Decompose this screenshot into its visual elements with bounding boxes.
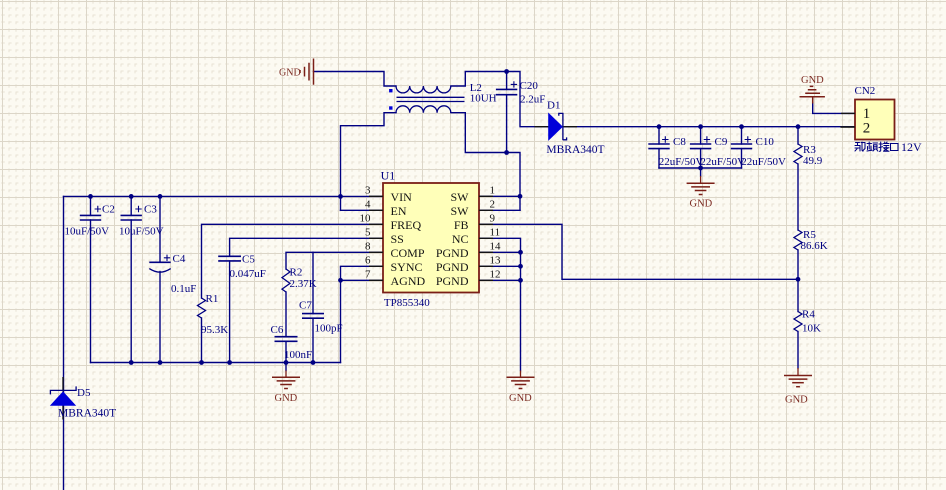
svg-text:C2: C2 (102, 204, 115, 216)
wire C6 ground stub (285, 363, 287, 371)
svg-text:10K: 10K (802, 323, 821, 335)
CN2 pin 1 (841, 106, 870, 122)
resistor R4 10K (794, 309, 821, 335)
connector CN2 body (855, 85, 895, 140)
svg-text:FREQ: FREQ (391, 218, 422, 232)
svg-text:SYNC: SYNC (391, 260, 423, 274)
wire CN2 pin2 stub (841, 126, 855, 128)
junction VIN rail / L2-EN (338, 194, 343, 199)
svg-text:MBRA340T: MBRA340T (58, 408, 116, 420)
capacitor C8 22uF/50V (648, 136, 703, 168)
svg-text:86.6K: 86.6K (801, 240, 828, 252)
junction PGND pin12 (518, 278, 523, 283)
CN2 pin 2 (841, 120, 870, 136)
wire bottom ground rail (91, 362, 341, 364)
power ground GND above CN2 (flipped) (800, 75, 825, 104)
resistor R2 2.37K (282, 267, 317, 293)
svg-text:U1: U1 (381, 169, 396, 183)
svg-text:SS: SS (391, 232, 404, 246)
svg-text:PGND: PGND (436, 274, 469, 288)
junction PGND pin14 (518, 250, 523, 255)
svg-text:GND: GND (509, 393, 532, 404)
U1 pin 1 SW (451, 185, 496, 204)
junction VIN rail / C4 (158, 194, 163, 199)
resistor R5 86.6K (794, 229, 828, 252)
wire PGND pin14 link (479, 251, 521, 253)
resistor R1 95.3K (198, 293, 229, 336)
capacitor C7 100pF (299, 300, 343, 335)
svg-text:SW: SW (451, 204, 470, 218)
svg-text:3: 3 (365, 185, 371, 197)
wire R3 top lead (797, 127, 799, 144)
junction VIN rail / C3 (129, 194, 134, 199)
wire L2 secondary left down to VIN net (341, 113, 397, 211)
svg-text:7: 7 (365, 269, 371, 281)
wire caps rail ground stub (700, 168, 702, 176)
svg-text:12V: 12V (901, 140, 922, 154)
svg-text:C4: C4 (173, 253, 186, 265)
svg-text:100nF: 100nF (284, 349, 312, 361)
svg-text:C20: C20 (520, 80, 539, 92)
junction output rail / R3 (796, 124, 801, 129)
svg-text:2.37K: 2.37K (290, 278, 317, 290)
U1 pin 6 SYNC (365, 255, 423, 274)
U1 pin 12 PGND (436, 269, 501, 288)
power ground GND below C6 rail (272, 371, 300, 404)
svg-text:C8: C8 (673, 136, 686, 148)
wire AGND column to ground rail (340, 280, 342, 362)
wire SW pin2 stub link (479, 209, 520, 211)
wire FB pin9 to feedback divider (479, 224, 798, 279)
wire C9 top lead (700, 127, 702, 144)
wire C3 bottom lead (130, 220, 132, 363)
junction ground rail / C7 (311, 360, 316, 365)
wire C3 top lead (130, 196, 132, 215)
junction output rail / C8 (657, 124, 662, 129)
junction SYNC-AGND (338, 278, 343, 283)
junction PGND pin13 (518, 264, 523, 269)
svg-text:1: 1 (490, 185, 496, 197)
U1 pin 8 COMP (365, 241, 425, 260)
wire output caps ground rail (659, 167, 742, 169)
junction caps ground rail / C9 (698, 166, 703, 171)
junction ground rail / C3 (129, 360, 134, 365)
svg-text:GND: GND (785, 395, 808, 406)
wire PGND pin13 link (479, 265, 521, 267)
svg-text:GND: GND (690, 199, 713, 210)
svg-text:R2: R2 (290, 267, 303, 279)
wire C8 bottom lead (658, 149, 660, 168)
capacitor C2 10uF/50V (65, 204, 115, 238)
wire output rail D1 to CN2 (563, 126, 855, 128)
junction output rail / C10 (739, 124, 744, 129)
svg-text:PGND: PGND (436, 246, 469, 260)
svg-text:2: 2 (490, 199, 496, 211)
wire R3 to R5 link (797, 164, 799, 230)
svg-text:22uF/50V: 22uF/50V (659, 156, 704, 168)
wire SS to C5 (230, 238, 383, 256)
svg-text:VIN: VIN (391, 190, 413, 204)
wire C4 bottom lead (159, 272, 161, 363)
wire PGND pin12 link (479, 279, 521, 281)
capacitor C3 10uF/50V (119, 204, 164, 238)
svg-text:9: 9 (490, 213, 496, 225)
svg-text:D5: D5 (77, 387, 91, 399)
capacitor C4 0.1uF (polarized) (149, 253, 196, 295)
svg-text:C5: C5 (242, 253, 255, 265)
wire C9 bottom lead (700, 149, 702, 168)
svg-text:0.047uF: 0.047uF (230, 268, 266, 280)
svg-text:PGND: PGND (436, 260, 469, 274)
junction ground rail / C4 (158, 360, 163, 365)
svg-text:10uF/50V: 10uF/50V (65, 226, 110, 238)
svg-text:AGND: AGND (391, 274, 426, 288)
svg-text:C3: C3 (144, 204, 157, 216)
U1 pin 2 SW (451, 199, 496, 218)
junction output rail / C9 (698, 124, 703, 129)
capacitor C10 22uF/50V (731, 136, 786, 168)
svg-text:COMP: COMP (391, 246, 425, 260)
wire R4 bottom lead (797, 332, 799, 369)
svg-text:4: 4 (365, 199, 371, 211)
wire R5 to FB node (797, 250, 799, 279)
wire C10 bottom lead (741, 149, 743, 168)
svg-text:14: 14 (490, 241, 502, 253)
junction ground rail / R1 (199, 360, 204, 365)
svg-text:MBRA340T: MBRA340T (546, 144, 604, 156)
wire R2 to C6 series link (285, 292, 287, 337)
wire C20 bottom lead (506, 95, 508, 153)
svg-text:11: 11 (490, 227, 501, 239)
wire SYNC pin6 to AGND column (341, 266, 384, 280)
wire C10 top lead (741, 127, 743, 144)
svg-text:12: 12 (490, 269, 501, 281)
U1 pin 5 SS (365, 227, 404, 246)
svg-text:0.1uF: 0.1uF (171, 283, 196, 295)
diode D5 MBRA340T (50, 377, 116, 420)
wire EN pin4 link (341, 209, 384, 211)
junction C20 top node (504, 69, 509, 74)
U1 pin 4 EN (365, 199, 407, 218)
inductor L2 10UH coupled windings (389, 82, 497, 113)
wire C2 bottom lead (90, 220, 92, 363)
svg-text:95.3K: 95.3K (201, 324, 228, 336)
wire SW pin1 stub link (479, 195, 520, 197)
svg-text:13: 13 (490, 255, 502, 267)
junction C20 bottom node (504, 150, 509, 155)
U1 pin 11 NC (452, 227, 500, 246)
svg-text:NC: NC (452, 232, 469, 246)
svg-text:TP855340: TP855340 (384, 297, 430, 309)
junction SW pins (518, 194, 523, 199)
svg-text:10uF/50V: 10uF/50V (119, 226, 164, 238)
wire L2 primary right to C20 top and D1 anode (451, 72, 549, 127)
wire R1 bottom lead (201, 318, 203, 363)
wire L2 secondary right to C20 bottom and SW pins (451, 113, 520, 211)
wire C8 top lead (658, 127, 660, 144)
power ground GND below R4 (784, 368, 812, 406)
U1 pin 9 FB (454, 213, 496, 232)
wire FB node to R4 (797, 279, 799, 311)
power ground GND below U1 PGND (507, 371, 535, 404)
svg-text:100pF: 100pF (315, 323, 343, 335)
diode D1 MBRA340T (535, 100, 605, 157)
op-amp U1 TP855340 regulator body (381, 169, 479, 310)
wire left vertical to D5 (63, 196, 65, 490)
svg-text:22uF/50V: 22uF/50V (741, 156, 786, 168)
junction FB node (796, 277, 801, 282)
svg-text:GND: GND (275, 393, 298, 404)
svg-text:SW: SW (451, 190, 470, 204)
svg-text:22uF/50V: 22uF/50V (700, 156, 745, 168)
svg-text:C9: C9 (715, 136, 728, 148)
capacitor C5 0.047uF (218, 253, 266, 280)
svg-text:C7: C7 (299, 300, 312, 312)
wire AGND pin7 link (341, 279, 384, 281)
U1 pin 10 FREQ (360, 213, 422, 232)
svg-text:D1: D1 (547, 100, 560, 112)
U1 pin 3 VIN (365, 185, 412, 204)
wire VIN rail (64, 195, 384, 197)
svg-text:10: 10 (360, 213, 372, 225)
wire C20 top lead (506, 72, 508, 90)
wire FREQ to R1 (202, 224, 384, 298)
svg-text:10UH: 10UH (470, 93, 497, 105)
junction VIN rail / C2 (88, 194, 93, 199)
svg-text:2.2uF: 2.2uF (520, 94, 545, 106)
junction ground rail / C6 (284, 360, 289, 365)
svg-text:6: 6 (365, 255, 371, 267)
wire NC pin11 to PGND vertical (479, 238, 521, 370)
svg-text:5: 5 (365, 227, 371, 239)
svg-text:R1: R1 (206, 293, 219, 305)
power ground GND below output caps (687, 176, 715, 210)
svg-text:R4: R4 (802, 309, 815, 321)
wire C2 top lead (90, 196, 92, 215)
svg-text:FB: FB (454, 218, 469, 232)
capacitor C9 22uF/50V (690, 136, 745, 168)
CN2 label 视频接口 12V (855, 140, 922, 154)
wire C5 bottom lead (229, 261, 231, 363)
power ground GND left (rotated bar style) (279, 59, 314, 85)
svg-text:8: 8 (365, 241, 371, 253)
U1 pin 14 PGND (436, 241, 501, 260)
wire COMP to R2 and C7 (286, 252, 383, 269)
capacitor C20 2.2uF (496, 80, 545, 106)
svg-text:GND: GND (279, 67, 301, 78)
svg-text:EN: EN (391, 204, 407, 218)
capacitor C6 100nF (271, 324, 313, 361)
U1 pin 7 AGND (365, 269, 425, 288)
svg-text:49.9: 49.9 (803, 155, 823, 167)
svg-text:C10: C10 (756, 136, 775, 148)
svg-text:C6: C6 (271, 324, 284, 336)
resistor R3 49.9 (794, 144, 823, 167)
wire C7 bottom lead (312, 318, 314, 362)
wire C7 branch from COMP (312, 252, 314, 313)
wire CN2 pin1 to GND (813, 103, 855, 113)
svg-text:GND: GND (801, 75, 824, 86)
wire GND to L2 primary top-left (314, 72, 397, 87)
wire C6 bottom lead (285, 341, 287, 362)
svg-text:CN2: CN2 (855, 85, 876, 97)
junction ground rail / C5 (227, 360, 232, 365)
svg-text:2: 2 (863, 120, 871, 136)
U1 pin 13 PGND (436, 255, 501, 274)
wire C4 top lead (159, 196, 161, 262)
